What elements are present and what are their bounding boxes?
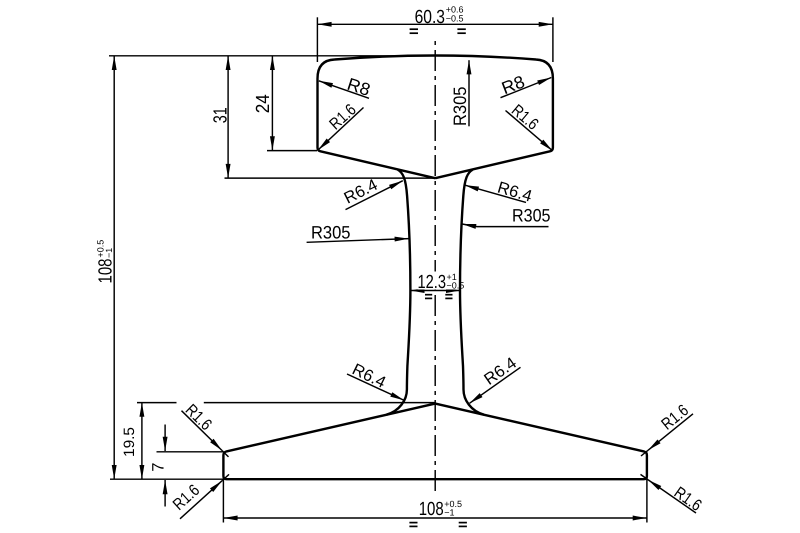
rail head outline — [318, 56, 553, 179]
label R1.6 foot right-top leader — [648, 414, 693, 451]
label R1.6 foot left-top leader — [182, 411, 223, 451]
svg-text:−0.5: −0.5 — [447, 280, 465, 290]
label R8 right leader — [501, 78, 552, 98]
dimension 31 line — [227, 56, 229, 178]
label R1.6 foot right-top text — [658, 401, 692, 433]
label R1.6 foot left-bottom leader — [180, 481, 222, 519]
label R305 head leader — [468, 60, 470, 126]
label R6.4 web left leader — [346, 181, 403, 210]
label R6.4 web right text — [495, 179, 534, 206]
label R6.4 web left text — [341, 176, 380, 208]
svg-text:12.3: 12.3 — [418, 272, 447, 293]
svg-text:31: 31 — [210, 107, 231, 123]
extension line head top left — [109, 55, 433, 57]
svg-text:24: 24 — [253, 94, 274, 113]
extension line 19.5 level — [137, 402, 177, 404]
label R305 web left leader — [307, 239, 409, 243]
extension line 7 level — [157, 451, 224, 453]
rail web right edge with R6.4 fillets — [460, 170, 484, 415]
equal marks under 108 bottom — [409, 523, 467, 527]
dimension 31 text — [210, 107, 231, 123]
centerline — [434, 41, 436, 496]
svg-text:108: 108 — [419, 499, 444, 520]
label R305 web right leader — [462, 224, 549, 227]
dimension 7 text — [150, 463, 168, 472]
label R1.6 head left text — [326, 101, 360, 134]
label R305 head text — [450, 87, 470, 127]
svg-text:108: 108 — [95, 259, 116, 284]
svg-text:19.5: 19.5 — [121, 427, 138, 457]
label R8 right text — [499, 71, 528, 98]
svg-text:R305: R305 — [450, 87, 470, 127]
extension line rail bottom left — [110, 478, 224, 480]
label R6.4 foot right text — [481, 354, 520, 389]
dimension 108 left line — [113, 56, 115, 479]
label R1.6 head left leader — [318, 108, 364, 151]
extension line foot bottom left — [222, 480, 224, 523]
svg-text:7: 7 — [150, 463, 168, 472]
rail foot outline — [223, 404, 647, 480]
rail web left edge with R6.4 fillets — [387, 170, 411, 415]
dimension 12.3 line — [410, 290, 460, 292]
svg-text:R305: R305 — [512, 205, 551, 225]
dimension 108 bottom line — [223, 517, 647, 519]
svg-text:−0.5: −0.5 — [446, 14, 464, 24]
label R1.6 foot left-top text — [182, 401, 215, 434]
label R1.6 foot left-bottom text — [170, 481, 204, 514]
dimension 24 text — [253, 94, 274, 113]
label R6.4 foot left text — [349, 360, 388, 392]
label R1.6 foot right-bottom leader — [648, 480, 696, 513]
dimension 19.5 text — [121, 427, 138, 457]
label R1.6 head right text — [508, 101, 542, 133]
label R1.6 foot right-bottom text — [671, 484, 705, 515]
dimension 7 arrows — [164, 425, 166, 452]
label R8 left leader — [319, 81, 369, 99]
dimension 12.3 text — [418, 272, 459, 290]
label R6.4 web right leader — [465, 185, 526, 202]
equal marks under 12.3 — [425, 295, 453, 299]
label R1.6 head right leader — [506, 111, 553, 151]
svg-text:−1: −1 — [104, 248, 114, 258]
extension line 24 — [267, 150, 317, 152]
svg-text:−1: −1 — [444, 508, 454, 518]
dimension 108 left text — [95, 240, 116, 284]
label R6.4 foot right leader — [470, 367, 521, 403]
extension line 31 — [225, 177, 438, 179]
svg-text:60.3: 60.3 — [415, 7, 445, 28]
dimension 60.3 line — [317, 23, 553, 25]
extension line 60.3 right — [552, 17, 554, 62]
extension line 60.3 left — [316, 17, 318, 62]
extension line foot bottom right — [646, 452, 648, 522]
label R8 left text — [345, 74, 373, 100]
dimension 19.5 line — [141, 403, 143, 480]
dimension 24 line — [271, 56, 273, 151]
label R6.4 foot left leader — [347, 374, 404, 400]
equal marks under 60.3 — [410, 29, 466, 33]
svg-text:R305: R305 — [311, 222, 351, 242]
